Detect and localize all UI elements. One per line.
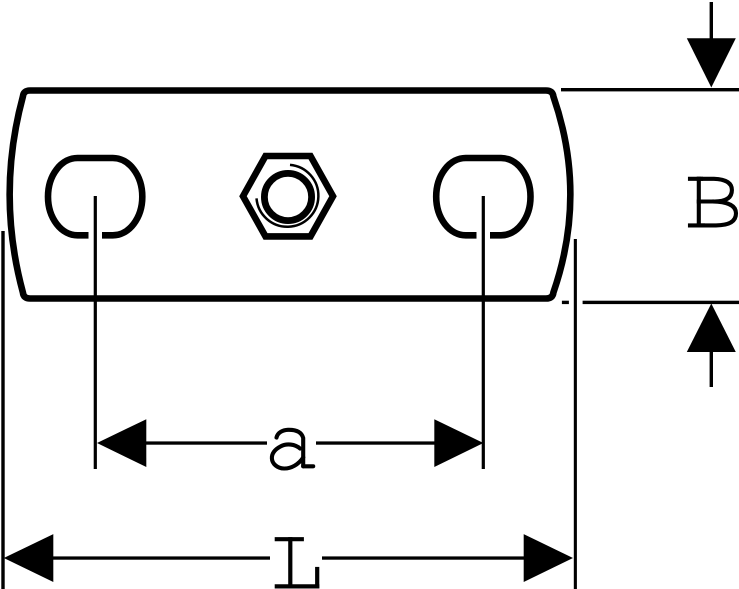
arrowhead L right — [524, 534, 573, 582]
right hole centerline — [482, 196, 485, 469]
extension line left for L — [1, 231, 4, 589]
extension line bottom dash for B — [562, 301, 569, 304]
label L — [277, 539, 317, 586]
dimension line B tail top — [710, 2, 713, 40]
arrowhead B top — [687, 38, 736, 87]
arrowhead a left — [97, 419, 146, 467]
nut thread thin arc — [257, 165, 319, 227]
extension line top for B — [561, 88, 739, 91]
dimension line L left segment — [53, 556, 270, 559]
arrowhead a right — [434, 419, 483, 467]
extension line right for L — [574, 239, 577, 589]
label B — [690, 179, 736, 226]
arrowhead B bottom — [687, 304, 736, 353]
nut inner thick circle — [264, 173, 311, 220]
dimension line L right segment — [322, 556, 525, 559]
hex nut outline — [243, 156, 333, 236]
right oblong hole — [436, 158, 530, 235]
dimension line a left segment — [145, 441, 267, 444]
left oblong hole — [48, 158, 142, 235]
dimension line B tail bottom — [710, 351, 713, 387]
plate outline — [10, 91, 571, 299]
gap in left hole for centerline — [89, 227, 103, 243]
label a — [272, 430, 313, 469]
arrowhead L left — [4, 534, 54, 582]
dimension line a right segment — [316, 441, 435, 444]
gap in right hole for centerline — [477, 227, 491, 243]
extension line bottom for B — [583, 301, 739, 304]
left hole centerline — [94, 196, 97, 469]
